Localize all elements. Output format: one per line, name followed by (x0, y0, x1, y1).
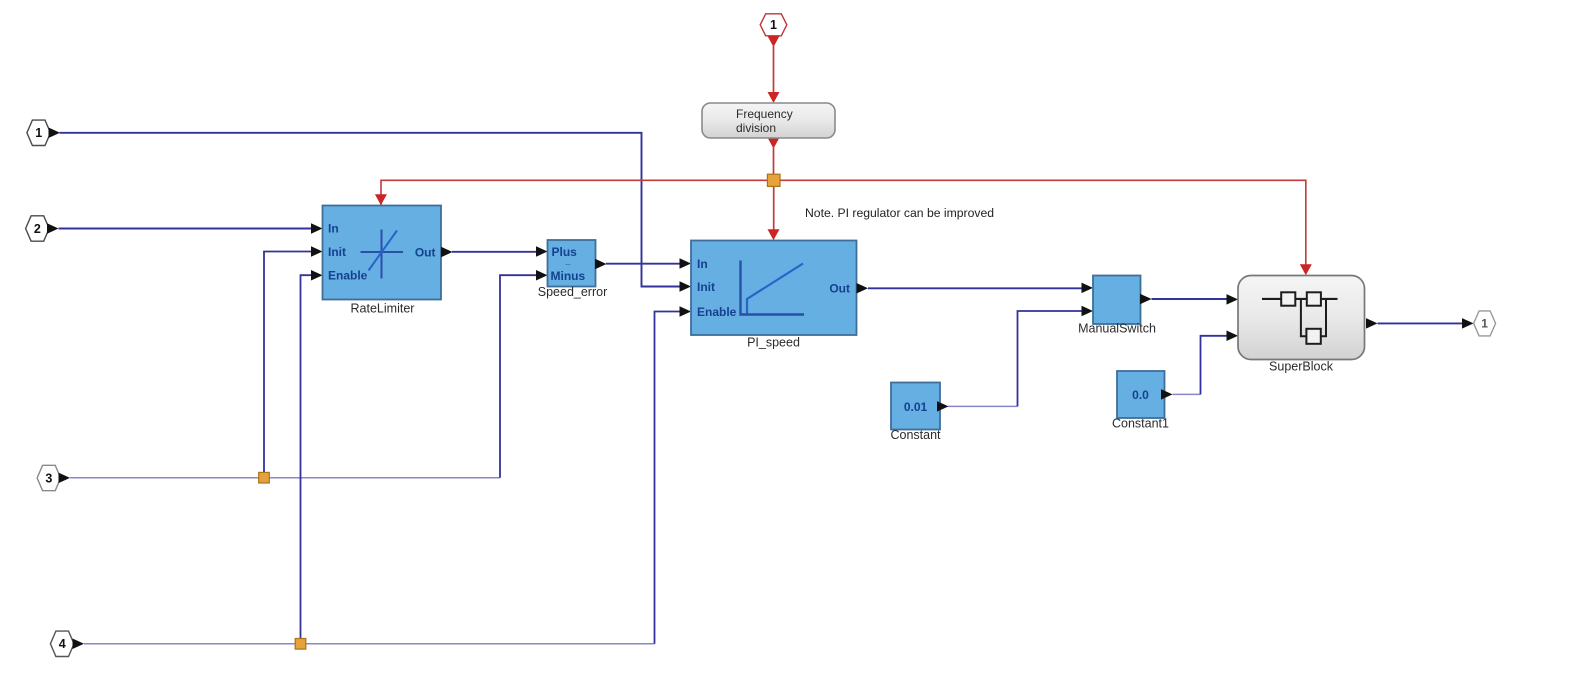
svg-text:Speed_error: Speed_error (538, 285, 608, 299)
block RateLimiter (323, 206, 453, 300)
red arrow into RateLimiter top (375, 194, 387, 205)
wire: PI_speed Out to ManualSwitch input 1 (868, 283, 1093, 294)
svg-text:ManualSwitch: ManualSwitch (1078, 321, 1156, 335)
input port 4 (50, 631, 84, 656)
svg-text:Constant: Constant (890, 428, 941, 442)
wire: input 4 branch to RateLimiter Enable (301, 270, 323, 644)
wire: input 2 to RateLimiter In (59, 223, 323, 234)
svg-text:1: 1 (770, 18, 777, 32)
red wire: Frequency division down to junction (768, 138, 780, 176)
wire: Speed_error out to PI_speed In (606, 258, 691, 269)
wire: Constant1 to SuperBlock input 2 (1173, 331, 1239, 395)
svg-text:division: division (736, 121, 776, 135)
block SuperBlock (1238, 276, 1378, 360)
svg-text:2: 2 (34, 222, 41, 236)
svg-text:4: 4 (59, 637, 66, 651)
block Frequency division (702, 103, 835, 138)
svg-text:Frequency: Frequency (736, 107, 793, 121)
red arrow into SuperBlock top (1300, 264, 1312, 275)
label Constant (890, 428, 941, 442)
input port 2 (26, 216, 59, 241)
svg-text:Constant1: Constant1 (1112, 416, 1169, 430)
red wire: junction down to PI_speed (768, 186, 780, 240)
block PI_speed (691, 241, 868, 336)
wire: input 4 to PI_speed Enable (655, 306, 692, 644)
wire: RateLimiter Out to Speed_error Plus (452, 246, 548, 257)
junction: input 3 split (259, 472, 270, 483)
svg-text:Plus: Plus (552, 245, 578, 259)
block Constant1 (1117, 371, 1173, 418)
svg-text:1: 1 (1481, 317, 1488, 331)
label RateLimiter (351, 302, 415, 316)
label SuperBlock (1269, 360, 1334, 374)
svg-text:0.0: 0.0 (1132, 388, 1149, 402)
wire: input 3 to Speed_error Minus (500, 270, 548, 478)
red wire: top port 1 down to Frequency division (768, 46, 780, 103)
block Speed_error (548, 240, 607, 287)
label ManualSwitch (1078, 321, 1156, 335)
svg-text:In: In (328, 222, 339, 236)
svg-text:PI_speed: PI_speed (747, 335, 800, 349)
svg-text:SuperBlock: SuperBlock (1269, 360, 1334, 374)
svg-text:1: 1 (35, 126, 42, 140)
wire: input 3 trunk (70, 477, 500, 479)
wire: input 4 trunk (84, 643, 655, 645)
svg-text:Out: Out (415, 245, 436, 259)
svg-text:Init: Init (697, 280, 715, 294)
note text (805, 206, 994, 220)
output port 1 (1474, 311, 1496, 336)
wire: input 1 to PI_speed Init (60, 133, 692, 292)
input port 3 (37, 465, 70, 490)
svg-text:0.01: 0.01 (904, 400, 928, 414)
wire: input 3 branch to RateLimiter Init (264, 246, 323, 477)
svg-text:Init: Init (328, 245, 346, 259)
svg-text:Enable: Enable (697, 305, 737, 319)
svg-text:Enable: Enable (328, 269, 368, 283)
label PI_speed (747, 335, 800, 349)
label Speed_error (538, 285, 608, 299)
svg-text:Note. PI regulator can be impr: Note. PI regulator can be improved (805, 206, 994, 220)
svg-text:RateLimiter: RateLimiter (351, 302, 415, 316)
wire: Constant to ManualSwitch input 2 (948, 306, 1093, 407)
block ManualSwitch (1093, 276, 1152, 325)
svg-text:3: 3 (45, 471, 52, 485)
top input port 1 (event) (760, 14, 787, 47)
input port 1 (27, 120, 60, 145)
svg-text:Minus: Minus (551, 269, 586, 283)
red wire: horizontal distribution line (381, 180, 1306, 264)
wire: ManualSwitch out to SuperBlock input 1 (1152, 294, 1239, 305)
junction: input 4 split (295, 639, 306, 650)
junction: red line split (767, 174, 780, 186)
svg-text:Out: Out (829, 282, 850, 296)
svg-text:In: In (697, 257, 708, 271)
wire: SuperBlock out to output port 1 (1378, 318, 1474, 329)
label Constant1 (1112, 416, 1169, 430)
block Constant (891, 383, 949, 430)
